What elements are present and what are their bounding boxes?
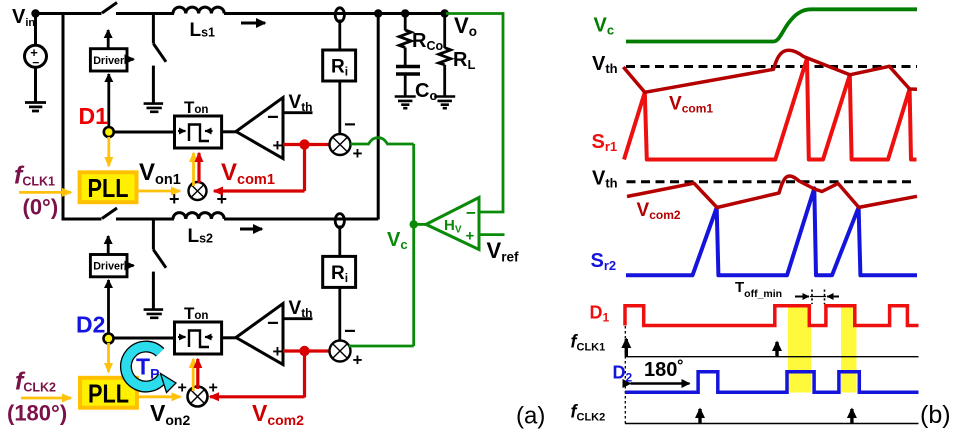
Vth dashed line panel1 — [626, 65, 917, 68]
ground at Vin source — [25, 103, 46, 112]
wire X2 to Vc node (green) — [349, 345, 414, 348]
180 degree span double arrow — [631, 382, 690, 384]
comparator A2 — [236, 304, 283, 365]
fCLK1 axis — [625, 356, 919, 358]
node Vo — [441, 9, 449, 17]
svg-text:(180°): (180°) — [7, 401, 67, 426]
current direction arrow phase 2 — [240, 228, 262, 231]
wire PLL1 to multiplier M1 (yellow arrow) — [137, 190, 181, 193]
svg-text:+: + — [273, 342, 283, 361]
fCLK2 axis — [625, 423, 919, 425]
multiplier X2 — [330, 341, 351, 362]
Toff_min dotted bound lines — [812, 290, 825, 305]
resistor Ri1 box — [323, 50, 356, 81]
resistor Ri2 box — [323, 256, 356, 287]
wire Hv output to Vc node — [414, 223, 427, 226]
fCLK1 clock arrow 2 — [775, 342, 778, 356]
dotted time reference line — [624, 326, 626, 424]
wire Vin node to switch S1 — [35, 12, 102, 15]
switch S3 (phase 2 high side) — [102, 208, 117, 219]
PLL1 box — [80, 172, 137, 202]
wire A1 output to multiplier X1 (red) — [283, 143, 331, 146]
Ton2 glyph left arrow — [178, 336, 186, 338]
svg-text:−: − — [466, 204, 476, 223]
svg-text:(0°): (0°) — [23, 195, 59, 220]
wire Ton2 to comparator A2 — [222, 336, 237, 339]
trace D2 — [625, 372, 919, 393]
current sense loop CT1 — [335, 8, 344, 22]
svg-text:D1: D1 — [79, 103, 109, 129]
op-amp Hv — [426, 198, 479, 250]
wire Vcom2 down (red) — [303, 351, 306, 398]
wire Ton1 to comparator A1 — [222, 130, 237, 133]
switch S4 lower lead — [152, 272, 155, 310]
wire Vref to Hv plus (green) — [479, 233, 505, 236]
Vth dashed line panel2 — [627, 180, 917, 183]
wire M1 to Ton1 (yellow arrow up) — [192, 153, 195, 186]
node D1 (yellow dot) — [104, 127, 114, 137]
trace D1 — [625, 306, 919, 326]
node Vin (junction dot) — [31, 9, 39, 17]
ground at S4 — [144, 310, 164, 318]
switch S1 (phase 1 high side) — [102, 3, 117, 14]
Ton2 glyph right arrow — [205, 336, 213, 338]
multiplier X1 — [330, 134, 351, 155]
inductor Ls1 — [173, 7, 224, 13]
wire M2 to Ton2 (yellow arrow up) — [192, 359, 195, 391]
Vth2 input line — [283, 317, 313, 320]
ground at RL — [434, 97, 455, 109]
wire Vo feedback to Hv minus (green) — [446, 14, 503, 213]
node Vcom2 (red dot) — [299, 346, 309, 356]
comparator A1 — [236, 98, 283, 159]
capacitor Co lead — [404, 48, 407, 67]
Ton1 glyph left arrow — [178, 130, 186, 132]
svg-text:+: + — [353, 144, 363, 163]
node output capacitor — [401, 9, 409, 17]
svg-text:+: + — [273, 136, 283, 155]
wire Ri2 to multiplier X2 — [338, 287, 341, 340]
wire fCLK1 input to PLL1 (yellow arrow) — [19, 191, 71, 194]
Ton1 pulse glyph — [189, 125, 209, 142]
Ton1 glyph right arrow — [205, 130, 213, 132]
switch S2 (phase 1 low side) stub from rail — [152, 14, 155, 44]
wire CT2 to Ri2 — [338, 226, 341, 257]
svg-text:+: + — [178, 380, 187, 397]
trace Sr2 — [626, 188, 917, 275]
svg-text:−: − — [344, 114, 356, 136]
wire Vc vertical (green) — [412, 144, 415, 346]
Ton2 box — [175, 322, 222, 354]
fCLK2 clock arrow 1 — [698, 409, 701, 423]
wire phase join vertical (output of phase 2 up to Vo rail) — [377, 14, 380, 220]
wire S3 to Ls2 — [116, 218, 174, 221]
svg-text:−: − — [267, 107, 279, 129]
node D2 (yellow dot) — [104, 334, 114, 344]
wire Vcom1 down (red) — [303, 145, 306, 192]
wire Vcom1 to M1 (red arrow left) — [214, 189, 305, 192]
driver U1 arrow right — [127, 58, 134, 61]
svg-text:PLL: PLL — [88, 173, 129, 203]
svg-text:D2: D2 — [76, 312, 105, 338]
Vth1 input line — [283, 111, 313, 114]
wire S1 to Ls1 — [116, 12, 174, 15]
svg-text:(b): (b) — [920, 401, 951, 429]
wire bus corner to switch S3 — [62, 218, 102, 221]
switch S4 blade — [153, 250, 166, 268]
wire A2 output to multiplier X2 (red) — [283, 349, 331, 352]
driver U1 arrow up — [107, 30, 110, 48]
ground at Co — [395, 97, 416, 109]
inductor Ls2 — [173, 213, 224, 219]
svg-text:180˚: 180˚ — [644, 358, 684, 381]
wire M2 to Ton2 (red arrow up) — [196, 359, 199, 389]
Ton1 box — [175, 116, 222, 148]
voltage source V1 lead bottom — [34, 67, 37, 103]
wire Ls2 to phase join — [224, 218, 378, 221]
wire D1 node to PLL1 (yellow arrow down) — [107, 137, 110, 166]
trace Vcom2 — [627, 176, 917, 208]
resistor RL lead — [443, 14, 446, 49]
svg-text:+: + — [466, 228, 475, 245]
driver U1 box — [90, 49, 127, 71]
wire M1 to Ton1 (red arrow up) — [197, 153, 200, 183]
resistor RL lead bottom — [443, 65, 446, 97]
Toff_min left-pointing arrow — [827, 296, 839, 298]
resistor RCo lead — [404, 14, 407, 31]
current sense loop CT2 — [335, 214, 344, 228]
wire D2 node to Ton2 — [109, 337, 176, 340]
svg-text:+: + — [169, 189, 180, 209]
wire D1 node to Ton1 — [109, 131, 175, 134]
svg-text:Driver: Driver — [93, 261, 125, 273]
svg-text:−: − — [267, 313, 279, 335]
fCLK2 clock arrow 2 — [850, 409, 853, 423]
svg-text:PLL: PLL — [88, 379, 129, 409]
current direction arrow phase 1 — [241, 22, 265, 25]
trace Vcom1 — [623, 50, 917, 92]
wire D1 node to driver U1 (arrow up) — [107, 74, 110, 129]
Toff_min right-pointing arrow — [795, 296, 809, 298]
wire Ri1 to multiplier X1 — [338, 81, 341, 134]
node Vcom1 (red dot) — [299, 139, 309, 149]
wire D2 node to driver U2 (arrow up) — [107, 280, 110, 335]
capacitor Co — [396, 67, 420, 75]
wire X1 to Vc node (green, hops over phase join) — [351, 138, 414, 144]
capacitor Co lead bottom — [404, 74, 407, 97]
voltage source V1 — [25, 45, 47, 67]
wire fCLK2 input to PLL2 (yellow arrow) — [21, 397, 71, 400]
driver U2 arrow right — [127, 264, 134, 267]
wire PLL2 to multiplier M2 (yellow arrow) — [137, 395, 181, 398]
wire input bus Vin to phase 2 rail — [62, 14, 65, 220]
driver U2 arrow up — [107, 236, 110, 254]
voltage source V1 lead top — [34, 14, 37, 47]
resistor RL — [439, 48, 451, 65]
switch S4 (phase 2 low side) stub from rail — [152, 219, 155, 250]
node Vc (green dot) — [410, 220, 418, 228]
trace Vc — [626, 9, 917, 41]
Toff_min connector line — [810, 296, 826, 298]
multiplier M1 (Von1 summing) — [189, 182, 207, 200]
wire Vcom2 to M2 (red arrow left) — [210, 395, 305, 398]
driver U2 box — [90, 255, 127, 277]
phase delay arrow Tp (cyan ring with black outline) — [126, 347, 176, 393]
svg-text:+: + — [209, 380, 218, 397]
node phase join (top) — [374, 9, 382, 17]
Ton2 pulse glyph — [189, 331, 209, 348]
yellow highlight bar 2 — [841, 306, 857, 393]
svg-text:−: − — [344, 321, 356, 343]
switch S2 lower lead — [152, 66, 155, 104]
PLL2 box — [80, 378, 137, 408]
svg-text:+: + — [353, 351, 363, 370]
fCLK1 clock arrow 1 — [625, 339, 628, 356]
wire CT1 to Ri1 — [338, 20, 341, 51]
wire D2 node to PLL2 (yellow arrow down) — [107, 343, 110, 372]
wire Ls1 to output node — [224, 12, 445, 15]
svg-text:Driver: Driver — [93, 55, 125, 67]
switch S2 blade — [153, 44, 166, 62]
resistor RCo — [399, 30, 411, 48]
yellow highlight bar 1 — [788, 306, 811, 393]
svg-text:(a): (a) — [516, 403, 545, 430]
trace Sr1 — [624, 59, 917, 160]
ground at S2 — [144, 104, 164, 112]
multiplier M2 (Von2 summing) — [188, 387, 208, 407]
